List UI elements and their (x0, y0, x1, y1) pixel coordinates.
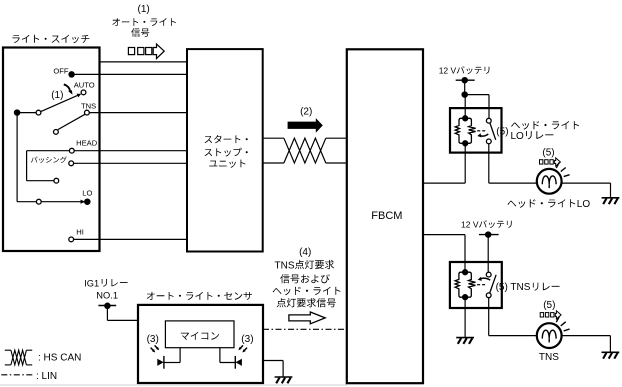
svg-text:: HS CAN: : HS CAN (38, 352, 81, 363)
svg-text:(5): (5) (543, 300, 555, 311)
svg-text:: LIN: : LIN (36, 371, 57, 382)
svg-text:(5) TNS: (5) TNS (496, 282, 531, 293)
svg-text:OFF: OFF (53, 66, 69, 75)
svg-text:LO: LO (82, 188, 92, 197)
svg-text:LO: LO (577, 199, 591, 210)
svg-text:NO.1: NO.1 (96, 290, 118, 300)
svg-text:(3): (3) (241, 334, 253, 345)
svg-text:TNS: TNS (539, 352, 559, 363)
svg-text:(3): (3) (147, 334, 159, 345)
svg-text:FBCM: FBCM (371, 210, 402, 222)
svg-text:(2): (2) (300, 106, 312, 117)
svg-text:IG1: IG1 (84, 278, 99, 288)
svg-text:TNS: TNS (81, 101, 96, 110)
svg-text:12 V: 12 V (461, 219, 479, 229)
svg-text:(1): (1) (138, 4, 150, 15)
svg-text:TNS: TNS (275, 260, 295, 271)
svg-text:(4): (4) (299, 247, 311, 258)
svg-text:HEAD: HEAD (76, 138, 98, 147)
svg-text:(5): (5) (496, 127, 508, 138)
svg-text:HI: HI (76, 228, 84, 237)
svg-text:12 V: 12 V (439, 65, 457, 75)
svg-text:(1): (1) (51, 90, 63, 101)
svg-text:AUTO: AUTO (74, 81, 95, 90)
svg-text:LO: LO (511, 131, 525, 142)
svg-text:(5): (5) (542, 148, 554, 159)
